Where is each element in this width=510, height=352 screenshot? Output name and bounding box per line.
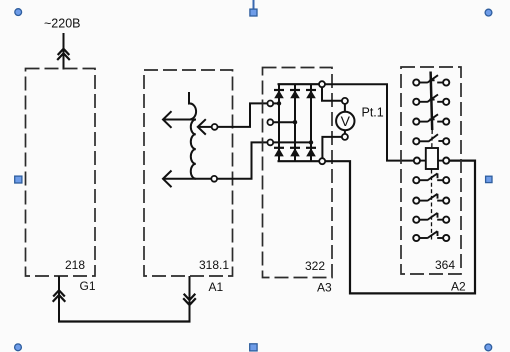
connector chevron: double arrow up at G1 top xyxy=(57,49,70,60)
box A3 (dashed enclosure 322) xyxy=(263,68,333,278)
rectifier bottom rail xyxy=(278,160,320,162)
svg-text:A1: A1 xyxy=(209,280,224,294)
relay K1 mechanical link (solid upper part) xyxy=(431,72,433,131)
svg-text:A2: A2 xyxy=(451,280,466,294)
terminal: bridge negative output xyxy=(319,158,325,164)
wire: supply drop into G1 xyxy=(63,33,65,70)
wire: positive rail to A2 coil left xyxy=(325,84,414,160)
relay K1 mechanical link (below coil, dashed) xyxy=(431,170,433,241)
transformer T1 winding top hook xyxy=(189,92,196,119)
diode VD2 (top col2) xyxy=(290,90,300,98)
wire: voltmeter bottom stub xyxy=(344,130,346,134)
diode VD3 (top col3) xyxy=(306,90,316,98)
svg-text:V: V xyxy=(341,113,351,129)
rectifier bridge input terminal 1 xyxy=(267,101,273,107)
terminal: bridge positive output xyxy=(319,81,325,87)
box A1 (dashed enclosure 318.1) xyxy=(144,70,233,276)
selection handle: rotation stem xyxy=(253,0,255,9)
rectifier bridge input terminal 3 xyxy=(267,140,273,146)
box A2 (dashed enclosure 364) xyxy=(401,67,461,274)
contact K1.7 row7 xyxy=(413,213,449,223)
wire: negative rail to bottom loop xyxy=(325,161,475,294)
wire: voltmeter top tap xyxy=(322,87,342,101)
selection handle: top-left circle xyxy=(15,9,22,16)
selection handle: top-middle square xyxy=(250,9,257,16)
wire: voltmeter top stub xyxy=(344,104,346,112)
diode VD5 (bottom col2) xyxy=(290,148,300,157)
rectifier bridge input terminal 2 xyxy=(267,119,273,125)
contact K1.6 row6 xyxy=(413,194,449,204)
relay coil K1 xyxy=(414,148,450,169)
svg-text:~220В: ~220В xyxy=(44,17,81,31)
voltmeter PV (circle V) xyxy=(336,112,354,130)
contact K1.8 row8 xyxy=(413,231,449,241)
rectifier column 3 xyxy=(310,84,312,161)
diode VD4 (bottom col1) xyxy=(274,148,284,157)
junction dot input3/column3 xyxy=(309,140,313,144)
svg-text:G1: G1 xyxy=(80,279,96,293)
transformer T1 winding (4 bumps) xyxy=(191,120,196,179)
box G1 (dashed enclosure 218) xyxy=(26,69,96,277)
wire: input 3 stub xyxy=(273,141,311,143)
wire: A1 bottom drop xyxy=(189,276,191,322)
transformer T1 wiper arrow xyxy=(198,119,212,134)
wire: G1 bottom drop xyxy=(58,276,60,322)
contact K1.4 row4 xyxy=(413,134,449,144)
selection handle: bottom-right circle xyxy=(485,344,492,351)
selection handle: left-middle square xyxy=(15,176,22,183)
wire: bottom link G1 to A1 xyxy=(58,320,191,322)
connector chevron: double arrow up below G1 xyxy=(53,290,66,302)
diode VD1 (top col1) xyxy=(274,90,284,98)
connector chevron: double arrow down below A1 xyxy=(183,294,196,305)
rectifier top rail xyxy=(278,83,319,85)
terminal: voltmeter top xyxy=(342,98,348,104)
relay K1 mechanical link (lower to coil) xyxy=(431,130,433,148)
contact K1.1 row1 xyxy=(413,75,449,85)
transformer T1 upper terminal arrow (left) xyxy=(163,111,196,128)
svg-text:322: 322 xyxy=(305,259,325,273)
svg-text:Pt.1: Pt.1 xyxy=(362,106,384,120)
junction dot input2/column2 xyxy=(293,120,297,124)
terminal: wiper output circle xyxy=(212,124,218,130)
selection handle: right-middle square xyxy=(486,176,492,182)
svg-text:218: 218 xyxy=(65,258,85,272)
diode VD6 (bottom col3) xyxy=(306,148,316,157)
wire: voltmeter bottom tap xyxy=(322,137,342,158)
wire: wiper to bridge input 1 xyxy=(218,103,268,127)
wire: input 2 stub xyxy=(273,121,295,123)
selection handle: bottom-left circle xyxy=(15,344,22,351)
terminal: lower output circle xyxy=(211,176,217,182)
transformer T1 lower terminal arrow (left) xyxy=(163,171,211,188)
rectifier column 2 xyxy=(294,84,296,161)
wire: input 1 stub xyxy=(273,102,279,104)
wire: lower output to bridge input 3 xyxy=(217,142,267,178)
selection handle: bottom-middle square xyxy=(250,344,257,351)
rectifier column 1 xyxy=(278,84,280,161)
junction dot input1/column1 xyxy=(277,101,281,105)
contact K1.2 row2 xyxy=(413,95,449,105)
contact K1.5 row5 xyxy=(413,173,449,183)
selection handle: top-right circle xyxy=(485,9,492,16)
svg-text:A3: A3 xyxy=(317,281,332,295)
contact K1.3 row3 xyxy=(413,114,449,124)
svg-text:318.1: 318.1 xyxy=(199,258,229,272)
terminal: voltmeter bottom xyxy=(342,134,348,140)
svg-text:364: 364 xyxy=(435,258,455,272)
